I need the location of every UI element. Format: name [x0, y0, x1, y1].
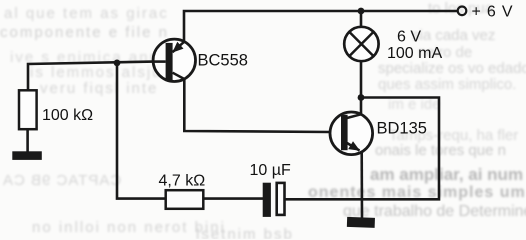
wire: feedback branch to capacitor — [277, 98, 439, 200]
lamp LP1 6V 100mA — [344, 27, 378, 61]
ground (below R1) — [12, 151, 42, 160]
svg-text:BD135: BD135 — [377, 119, 427, 137]
wire: left drop to 4.7k and capacitor — [117, 63, 270, 199]
svg-text:4,7 kΩ: 4,7 kΩ — [159, 173, 206, 190]
node: lamp / BD135 collector / feedback junction — [358, 94, 365, 101]
ground (below BD135) — [347, 217, 375, 228]
wire: BC558 base wire — [28, 62, 154, 91]
svg-text:6 V: 6 V — [397, 29, 421, 46]
svg-text:10 µF: 10 µF — [250, 162, 291, 179]
wire: +6V supply rail with BC558 emitter riser — [184, 11, 458, 42]
svg-text:100 mA: 100 mA — [387, 45, 442, 62]
faint bleed-through text from reverse page (decorative) — [4, 5, 169, 22]
wire: lamp top lead — [360, 11, 363, 27]
resistor R1 100k (vertical) — [19, 90, 37, 129]
wire: R1 to ground — [26, 129, 29, 152]
node: rail / lamp junction — [358, 8, 365, 15]
resistor R2 4.7k (horizontal) — [166, 190, 204, 209]
svg-text:100 kΩ: 100 kΩ — [42, 107, 93, 124]
wire: BD135 emitter lead — [360, 152, 363, 219]
transistor Q1 BC558 (PNP) — [153, 39, 195, 81]
terminal: +6V open circle — [458, 7, 467, 16]
wire: lamp bottom lead — [360, 61, 363, 98]
wire: BC558 collector to BD135 base — [184, 79, 330, 133]
transistor Q2 BD135 (NPN) — [330, 112, 373, 155]
svg-text:+ 6 V: + 6 V — [472, 3, 514, 20]
wire: BD135 collector lead — [360, 98, 363, 115]
svg-text:BC558: BC558 — [198, 52, 248, 70]
capacitor C1 10uF — [263, 183, 285, 217]
node: base / R2 junction — [114, 60, 121, 67]
